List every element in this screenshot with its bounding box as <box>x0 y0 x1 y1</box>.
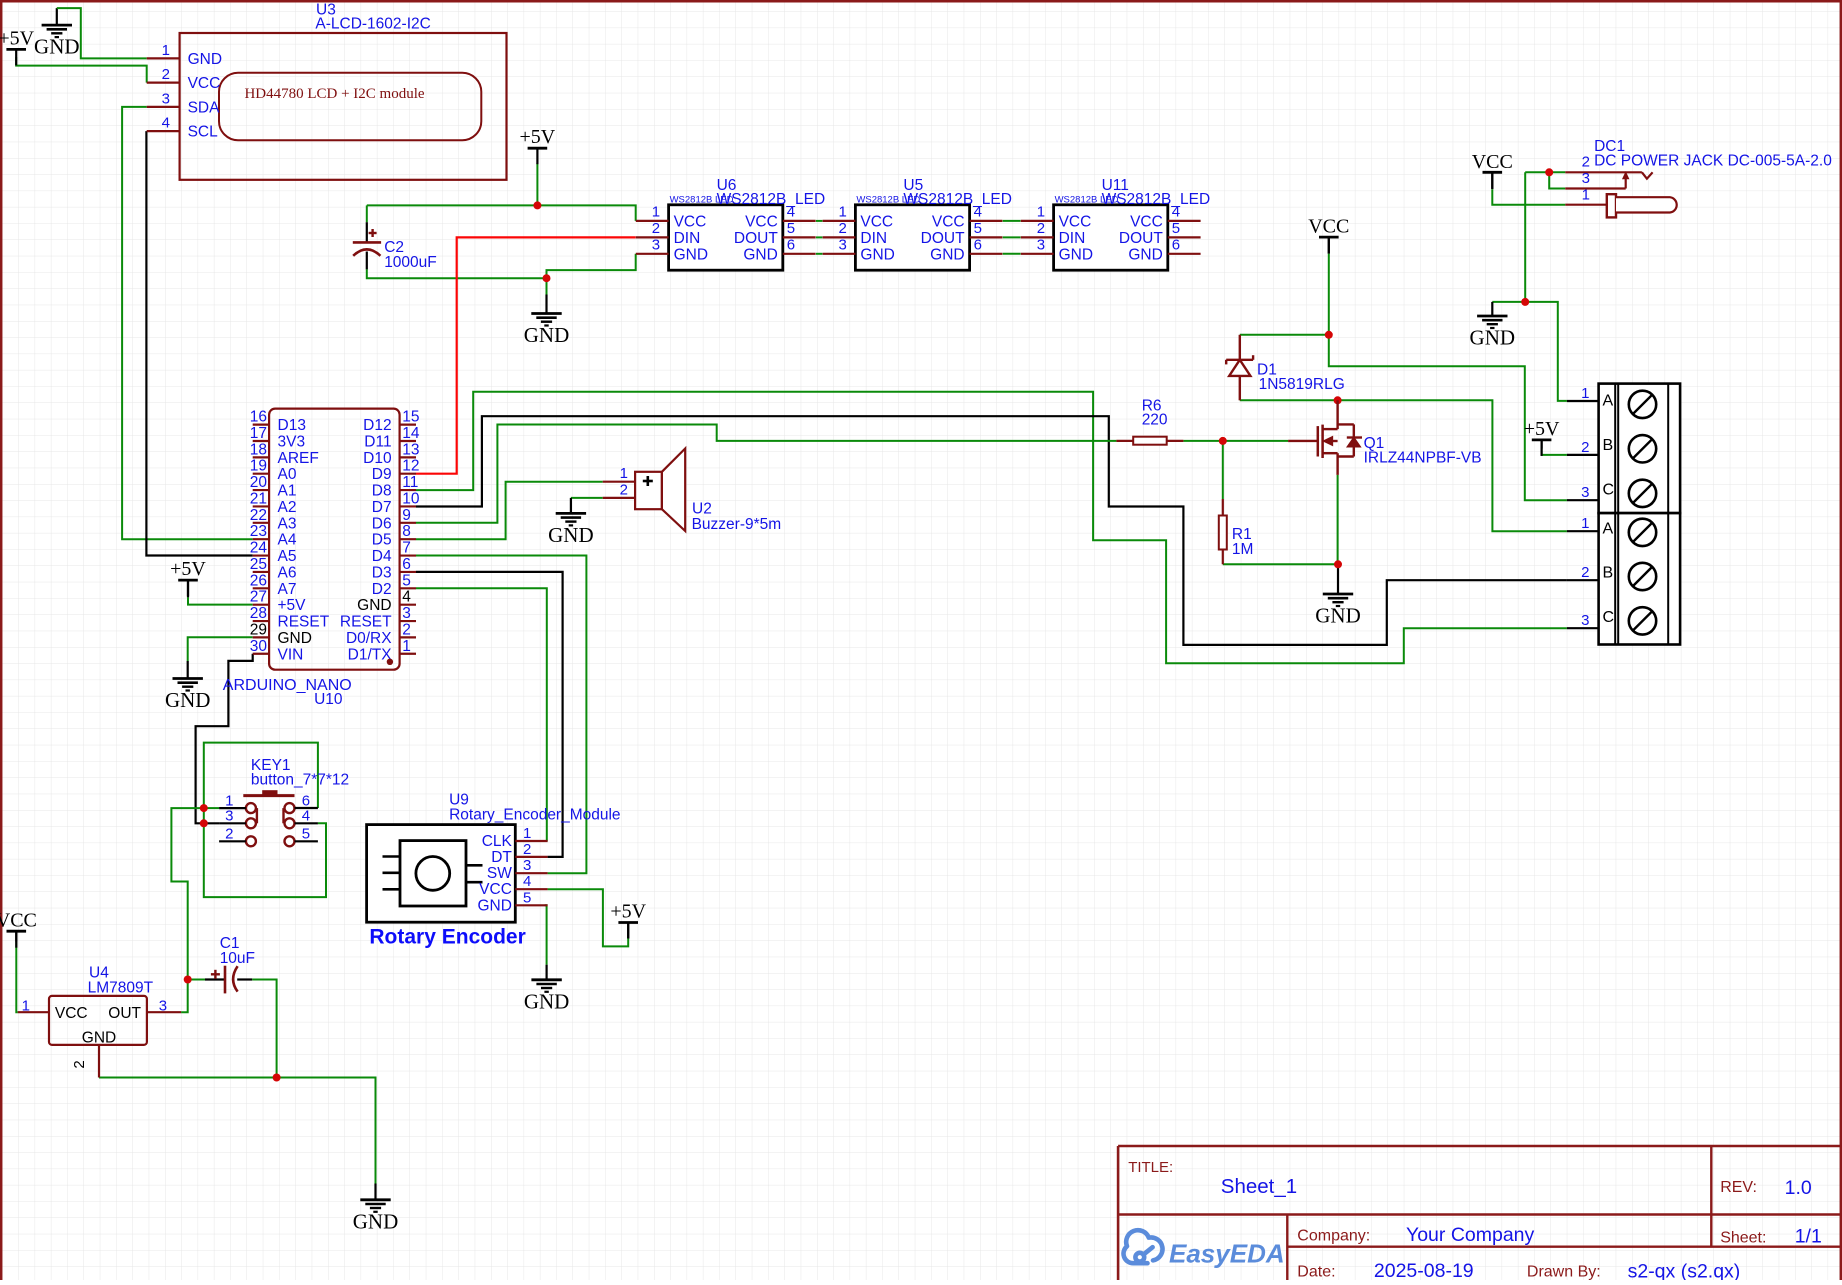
svg-text:10uF: 10uF <box>220 950 255 967</box>
svg-text:HD44780 LCD + I2C module: HD44780 LCD + I2C module <box>244 86 424 102</box>
svg-text:4: 4 <box>302 808 310 825</box>
svg-text:Drawn By:: Drawn By: <box>1527 1264 1601 1281</box>
svg-text:GND: GND <box>82 1030 116 1047</box>
svg-text:A7: A7 <box>278 581 297 598</box>
svg-text:22: 22 <box>250 507 267 524</box>
svg-text:DIN: DIN <box>1059 230 1086 247</box>
svg-text:GND: GND <box>548 523 594 547</box>
svg-text:GND: GND <box>1128 246 1162 263</box>
svg-text:3: 3 <box>402 605 411 622</box>
svg-text:1: 1 <box>1037 204 1045 221</box>
svg-text:5: 5 <box>402 572 411 589</box>
svg-text:D2: D2 <box>372 581 392 598</box>
svg-text:VCC: VCC <box>932 213 965 230</box>
svg-text:2: 2 <box>1582 154 1590 171</box>
svg-text:+5V: +5V <box>1524 418 1560 440</box>
svg-text:GND: GND <box>1470 326 1516 350</box>
svg-text:1: 1 <box>1582 187 1590 204</box>
svg-text:1: 1 <box>620 465 628 482</box>
svg-text:VCC: VCC <box>1472 151 1513 173</box>
svg-text:+5V: +5V <box>170 558 206 580</box>
svg-text:2: 2 <box>1037 220 1045 237</box>
svg-text:GND: GND <box>524 323 570 347</box>
svg-text:D11: D11 <box>364 433 391 450</box>
svg-text:TITLE:: TITLE: <box>1128 1159 1173 1176</box>
svg-text:3: 3 <box>523 857 531 874</box>
svg-text:Rotary_Encoder_Module: Rotary_Encoder_Module <box>449 807 620 824</box>
svg-text:OUT: OUT <box>108 1005 141 1022</box>
svg-text:GND: GND <box>278 630 312 647</box>
svg-text:GND: GND <box>165 688 211 712</box>
svg-text:5: 5 <box>974 220 982 237</box>
svg-text:GND: GND <box>1315 604 1361 628</box>
svg-text:DIN: DIN <box>674 230 701 247</box>
svg-text:DOUT: DOUT <box>734 230 778 247</box>
svg-text:2025-08-19: 2025-08-19 <box>1374 1260 1474 1280</box>
svg-text:D9: D9 <box>372 466 392 483</box>
svg-text:+5V: +5V <box>278 597 307 614</box>
svg-text:RESET: RESET <box>340 614 392 631</box>
svg-text:1: 1 <box>839 204 847 221</box>
svg-text:A-LCD-1602-I2C: A-LCD-1602-I2C <box>315 16 430 33</box>
svg-text:GND: GND <box>524 989 570 1013</box>
svg-text:1: 1 <box>652 204 660 221</box>
svg-text:1: 1 <box>1581 515 1589 532</box>
svg-text:A: A <box>1603 520 1614 537</box>
svg-text:4: 4 <box>523 873 531 890</box>
svg-text:3: 3 <box>1581 612 1589 629</box>
svg-text:5: 5 <box>523 889 531 906</box>
svg-text:DOUT: DOUT <box>1119 230 1163 247</box>
svg-text:2: 2 <box>1581 564 1589 581</box>
svg-text:A5: A5 <box>278 548 297 565</box>
svg-text:9: 9 <box>402 507 411 524</box>
svg-text:CLK: CLK <box>482 833 513 850</box>
svg-text:GND: GND <box>357 597 391 614</box>
svg-text:7: 7 <box>402 540 411 557</box>
svg-text:6: 6 <box>1172 236 1180 253</box>
svg-text:16: 16 <box>250 409 267 426</box>
svg-text:VCC: VCC <box>479 881 512 898</box>
svg-text:A0: A0 <box>278 466 297 483</box>
svg-text:6: 6 <box>974 236 982 253</box>
svg-text:20: 20 <box>250 474 268 491</box>
svg-text:2: 2 <box>620 482 628 499</box>
svg-text:17: 17 <box>250 425 267 442</box>
svg-text:AREF: AREF <box>278 450 319 467</box>
svg-text:23: 23 <box>250 523 267 540</box>
svg-text:18: 18 <box>250 441 267 458</box>
svg-text:GND: GND <box>188 51 222 68</box>
svg-text:1N5819RLG: 1N5819RLG <box>1259 376 1345 393</box>
svg-text:14: 14 <box>402 425 420 442</box>
svg-text:28: 28 <box>250 605 267 622</box>
svg-text:VCC: VCC <box>745 213 778 230</box>
svg-text:3: 3 <box>1581 484 1589 501</box>
svg-text:2: 2 <box>402 621 411 638</box>
svg-text:EasyEDA: EasyEDA <box>1169 1239 1285 1269</box>
svg-text:VCC: VCC <box>55 1005 88 1022</box>
svg-text:30: 30 <box>250 638 268 655</box>
svg-text:D4: D4 <box>372 548 392 565</box>
svg-text:s2-qx (s2.qx): s2-qx (s2.qx) <box>1628 1261 1741 1281</box>
svg-text:Sheet_1: Sheet_1 <box>1221 1175 1297 1198</box>
svg-text:21: 21 <box>250 490 267 507</box>
svg-text:A6: A6 <box>278 564 297 581</box>
svg-text:IRLZ44NPBF-VB: IRLZ44NPBF-VB <box>1364 450 1482 467</box>
svg-text:Rotary Encoder: Rotary Encoder <box>369 926 525 949</box>
svg-text:A2: A2 <box>278 499 297 516</box>
svg-text:+5V: +5V <box>0 27 35 49</box>
svg-text:GND: GND <box>930 246 964 263</box>
svg-text:+5V: +5V <box>520 126 556 148</box>
svg-text:2: 2 <box>1581 439 1589 456</box>
svg-text:VCC: VCC <box>1308 216 1349 238</box>
svg-text:D13: D13 <box>278 417 306 434</box>
svg-text:DT: DT <box>491 849 512 866</box>
svg-text:2: 2 <box>652 220 660 237</box>
svg-text:1: 1 <box>523 825 531 842</box>
svg-text:VCC: VCC <box>188 75 221 92</box>
svg-text:DOUT: DOUT <box>921 230 965 247</box>
svg-text:DC POWER JACK DC-005-5A-2.0: DC POWER JACK DC-005-5A-2.0 <box>1594 153 1832 170</box>
svg-text:GND: GND <box>743 246 777 263</box>
svg-text:6: 6 <box>787 236 795 253</box>
svg-text:GND: GND <box>477 897 511 914</box>
svg-text:3: 3 <box>159 998 167 1015</box>
svg-text:GND: GND <box>353 1209 399 1233</box>
svg-text:5: 5 <box>787 220 795 237</box>
svg-text:U10: U10 <box>314 691 343 708</box>
svg-text:VCC: VCC <box>1059 213 1092 230</box>
svg-text:1: 1 <box>402 638 411 655</box>
svg-text:24: 24 <box>250 540 268 557</box>
svg-text:5: 5 <box>302 826 310 843</box>
svg-text:3: 3 <box>225 808 233 825</box>
svg-text:SDA: SDA <box>188 99 221 116</box>
svg-text:REV:: REV: <box>1720 1179 1757 1196</box>
svg-text:3: 3 <box>1037 237 1045 254</box>
svg-text:11: 11 <box>402 474 418 491</box>
svg-text:3: 3 <box>652 237 660 254</box>
svg-text:1.0: 1.0 <box>1785 1177 1812 1199</box>
svg-text:VCC: VCC <box>1130 213 1163 230</box>
svg-text:4: 4 <box>402 589 411 606</box>
svg-text:GND: GND <box>34 35 80 59</box>
svg-text:SCL: SCL <box>188 124 219 141</box>
svg-text:1: 1 <box>162 42 170 59</box>
svg-text:D0/RX: D0/RX <box>346 630 392 647</box>
svg-text:WS2812B LED: WS2812B LED <box>670 195 734 206</box>
svg-text:Buzzer-9*5m: Buzzer-9*5m <box>692 516 782 533</box>
svg-text:26: 26 <box>250 572 267 589</box>
svg-text:1000uF: 1000uF <box>384 254 437 271</box>
svg-text:2: 2 <box>839 220 847 237</box>
svg-text:VCC: VCC <box>674 213 707 230</box>
svg-text:D8: D8 <box>372 483 392 500</box>
svg-text:WS2812B LED: WS2812B LED <box>856 195 920 206</box>
svg-text:SW: SW <box>487 865 512 882</box>
svg-text:D1/TX: D1/TX <box>348 646 393 663</box>
svg-text:1: 1 <box>22 998 30 1015</box>
svg-text:VIN: VIN <box>278 646 304 663</box>
svg-text:29: 29 <box>250 621 267 638</box>
svg-text:2: 2 <box>523 841 531 858</box>
svg-text:D10: D10 <box>363 450 392 467</box>
svg-text:10: 10 <box>402 490 420 507</box>
svg-text:4: 4 <box>162 115 170 132</box>
svg-text:C: C <box>1603 609 1615 626</box>
svg-text:27: 27 <box>250 589 267 606</box>
svg-text:A: A <box>1603 392 1614 409</box>
svg-text:A1: A1 <box>278 483 297 500</box>
svg-text:3: 3 <box>162 90 170 107</box>
svg-text:12: 12 <box>402 458 419 475</box>
svg-text:WS2812B LED: WS2812B LED <box>1055 195 1119 206</box>
svg-text:D3: D3 <box>372 564 392 581</box>
svg-text:2: 2 <box>162 66 170 83</box>
svg-text:3V3: 3V3 <box>278 433 306 450</box>
svg-text:3: 3 <box>839 237 847 254</box>
svg-text:VCC: VCC <box>0 910 37 932</box>
svg-text:A3: A3 <box>278 515 297 532</box>
svg-text:1M: 1M <box>1232 541 1254 558</box>
svg-text:A4: A4 <box>278 532 297 549</box>
svg-text:C: C <box>1603 481 1615 498</box>
svg-text:13: 13 <box>402 441 419 458</box>
svg-text:2: 2 <box>71 1060 88 1068</box>
svg-text:GND: GND <box>860 246 894 263</box>
svg-text:220: 220 <box>1142 412 1168 429</box>
svg-text:+5V: +5V <box>610 901 646 923</box>
svg-text:GND: GND <box>674 246 708 263</box>
svg-text:1: 1 <box>1581 385 1589 402</box>
svg-text:RESET: RESET <box>278 614 330 631</box>
svg-text:VCC: VCC <box>860 213 893 230</box>
svg-text:1/1: 1/1 <box>1795 1226 1822 1248</box>
svg-text:Your Company: Your Company <box>1406 1224 1535 1246</box>
svg-text:Sheet:: Sheet: <box>1720 1230 1766 1247</box>
svg-text:Date:: Date: <box>1297 1264 1335 1281</box>
svg-text:D6: D6 <box>372 515 392 532</box>
svg-text:3: 3 <box>1582 170 1590 187</box>
svg-text:B: B <box>1603 565 1614 582</box>
svg-text:19: 19 <box>250 458 267 475</box>
svg-text:25: 25 <box>250 556 267 573</box>
svg-text:GND: GND <box>1059 246 1093 263</box>
svg-text:8: 8 <box>402 523 411 540</box>
svg-text:B: B <box>1603 437 1614 454</box>
svg-text:button_7*7*12: button_7*7*12 <box>251 771 349 788</box>
svg-text:6: 6 <box>402 556 411 573</box>
svg-text:15: 15 <box>402 409 419 426</box>
svg-text:DIN: DIN <box>860 230 887 247</box>
svg-text:2: 2 <box>225 826 233 843</box>
svg-text:Company:: Company: <box>1297 1228 1370 1245</box>
svg-text:LM7809T: LM7809T <box>88 979 154 996</box>
svg-text:D7: D7 <box>372 499 392 516</box>
svg-text:D12: D12 <box>363 417 391 434</box>
svg-text:D5: D5 <box>372 532 392 549</box>
svg-text:5: 5 <box>1172 220 1180 237</box>
